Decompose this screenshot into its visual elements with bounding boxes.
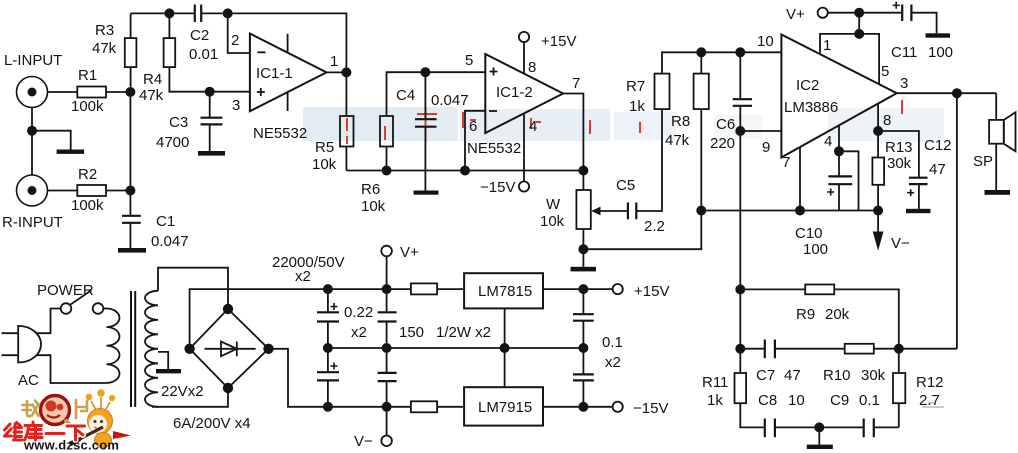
wire R2 to node <box>106 190 130 192</box>
op-amp IC1-1 <box>250 34 327 112</box>
wire R1 to node <box>106 91 130 93</box>
wire W bottom ground stem <box>582 249 584 267</box>
svg-text:8: 8 <box>528 59 536 76</box>
resistor R13 <box>872 158 884 185</box>
AC plug <box>18 326 41 363</box>
svg-text:V−: V− <box>354 433 373 450</box>
bridge diode symbol <box>205 342 256 357</box>
wire 0.22 cap column <box>386 256 388 407</box>
junction pin2 drop <box>224 9 232 17</box>
junction pin8 node <box>874 127 882 135</box>
wire secondary center tap <box>158 352 168 369</box>
wire V+ rail from bridge left <box>190 289 411 349</box>
svg-text:C2: C2 <box>190 27 209 44</box>
wire W top lead <box>582 171 584 191</box>
wire C8 to C9 <box>775 426 864 428</box>
bridge rectifier diamond <box>190 309 269 388</box>
junction R8 bottom <box>697 206 705 214</box>
wire W bottom lead <box>582 229 584 249</box>
IC1-2 minus input mark <box>489 110 497 112</box>
wire R5 leads <box>345 72 347 170</box>
wire bottom bus of IC1-2 <box>346 170 583 172</box>
wire LM7815 ground pin <box>504 308 506 387</box>
svg-text:NE5532: NE5532 <box>253 125 307 142</box>
logo text 找 <box>23 401 39 417</box>
junction -15V node <box>579 403 587 411</box>
svg-text:R1: R1 <box>78 67 97 84</box>
capacitor 22000/50V upper <box>317 312 339 321</box>
wire C4 leads <box>424 72 426 190</box>
polarity + <box>331 303 338 310</box>
svg-text:R10: R10 <box>823 367 851 384</box>
junction C6 top <box>736 48 744 56</box>
W wiper arrow <box>599 210 628 212</box>
wire mid rail <box>328 347 584 349</box>
resistor R12 <box>893 373 905 403</box>
ground W <box>571 267 597 272</box>
svg-text:L-INPUT: L-INPUT <box>4 52 62 69</box>
capacitor C7 <box>765 340 775 359</box>
svg-text:+15V: +15V <box>541 33 576 50</box>
svg-text:R7: R7 <box>626 78 645 95</box>
wire C9 to R12 <box>874 426 899 428</box>
resistor 150 lower <box>411 401 437 412</box>
svg-text:10: 10 <box>757 33 774 50</box>
svg-text:LM3886: LM3886 <box>784 99 838 116</box>
capacitor C5 <box>628 203 636 220</box>
resistor R3 <box>125 38 137 67</box>
svg-text:C8: C8 <box>758 392 777 409</box>
wire to pin 2 <box>228 13 250 53</box>
junction R1 node <box>126 88 134 96</box>
resistor R6 <box>380 116 393 147</box>
capacitor C9 <box>864 419 874 438</box>
switch POWER contact left <box>61 303 72 314</box>
connector R-INPUT jack <box>17 175 48 206</box>
wire pin4 drop <box>838 125 840 151</box>
ghost mark <box>922 403 944 407</box>
wire 22000 cap column <box>327 289 329 407</box>
wire R12 leads <box>898 349 900 428</box>
IC1-1 supply pin marks <box>287 34 289 111</box>
svg-text:1k: 1k <box>707 392 723 409</box>
wire C5 to R7 <box>636 109 662 211</box>
svg-text:5: 5 <box>465 52 473 69</box>
transformer primary winding <box>107 309 120 383</box>
svg-text:47k: 47k <box>92 40 117 57</box>
junction 0.22 cap top rail / V+ <box>383 285 391 293</box>
polarity + <box>331 363 338 370</box>
ground center tap <box>156 369 181 373</box>
terminal V+ supply <box>381 246 392 257</box>
wire R4 bottom to pin3 <box>169 67 250 92</box>
wire pin8 drop <box>877 104 879 132</box>
svg-text:IC1-1: IC1-1 <box>256 65 293 82</box>
svg-text:www.dzsc.com: www.dzsc.com <box>23 438 119 453</box>
wire IC1-2 output pin7 <box>563 94 583 171</box>
wire to LM7815 <box>437 288 464 290</box>
svg-text:4700: 4700 <box>156 134 189 151</box>
capacitor C11 <box>902 5 911 22</box>
C12 polarity + <box>907 189 914 196</box>
junction bridge left <box>185 345 194 354</box>
capacitor C10 <box>828 176 852 184</box>
resistor R10 <box>845 344 874 354</box>
wire V- from bridge right <box>269 349 411 407</box>
wire L jack to R1 <box>48 91 78 93</box>
wire C7/R10 net <box>740 348 957 350</box>
wire R jack to R2 <box>48 190 78 192</box>
svg-text:6: 6 <box>469 118 477 135</box>
svg-text:x2: x2 <box>605 354 621 371</box>
transformer secondary winding <box>145 291 158 407</box>
svg-text:6A/200V x4: 6A/200V x4 <box>173 415 251 432</box>
junction mid rail at 22000 caps <box>324 344 332 352</box>
wire inverting bus <box>701 210 878 212</box>
svg-text:R4: R4 <box>143 71 162 88</box>
svg-text:10: 10 <box>788 392 805 409</box>
svg-text:SP: SP <box>973 153 993 170</box>
svg-text:R-INPUT: R-INPUT <box>2 214 63 231</box>
junction W top <box>579 166 587 174</box>
svg-text:+15V: +15V <box>634 283 669 300</box>
wire R6 bottom <box>386 147 388 171</box>
potentiometer W body <box>576 190 590 229</box>
svg-text:20k: 20k <box>825 306 850 323</box>
junction 0.22 cap bottom rail / V- <box>383 403 391 411</box>
wire pin6 stub <box>465 111 485 171</box>
wire secondary top to bridge <box>158 268 228 309</box>
svg-text:100k: 100k <box>71 197 104 214</box>
svg-text:47k: 47k <box>665 132 690 149</box>
svg-text:10k: 10k <box>312 156 337 173</box>
svg-text:C10: C10 <box>795 225 823 242</box>
junction pin1/pin5 V+ <box>855 30 863 38</box>
svg-text:x2: x2 <box>295 268 311 285</box>
svg-text:10k: 10k <box>361 198 386 215</box>
wire R8 leads <box>700 52 702 210</box>
svg-text:0.1: 0.1 <box>859 392 880 409</box>
wire R11 bottom <box>740 403 765 427</box>
resistor R1 <box>77 87 106 98</box>
ground input <box>57 150 85 154</box>
wire plug to primary bottom <box>36 355 106 383</box>
wire pin5 <box>859 34 879 84</box>
svg-text:100: 100 <box>928 44 953 61</box>
wire plug to switch <box>36 309 60 334</box>
capacitor C2 <box>195 5 201 23</box>
svg-text:7: 7 <box>782 154 790 171</box>
C11 polarity + <box>893 2 900 9</box>
wire LM7915 output <box>543 406 613 408</box>
wire pin4 <box>523 113 525 181</box>
svg-text:1/2W x2: 1/2W x2 <box>436 324 491 341</box>
wire R13 leads <box>877 131 879 211</box>
wire C1 to ground <box>129 223 131 248</box>
junction R6 bottom <box>382 166 390 174</box>
svg-text:C9: C9 <box>830 392 849 409</box>
wire R6 top to pin5 <box>387 72 486 116</box>
junction R10 right node <box>895 345 903 353</box>
svg-text:22Vx2: 22Vx2 <box>161 383 204 400</box>
wire node column x130 <box>129 92 131 216</box>
wire C6 bottom to feedback column <box>739 106 741 373</box>
resistor R5 <box>340 116 354 147</box>
junction bridge bottom <box>224 384 233 393</box>
resistor 150 upper <box>411 283 437 294</box>
wire pin8 <box>523 42 525 74</box>
junction pin1 node <box>342 68 350 76</box>
svg-text:3: 3 <box>232 97 240 114</box>
svg-text:0.01: 0.01 <box>189 46 218 63</box>
wire V- terminal drop <box>386 407 388 436</box>
svg-text:150: 150 <box>399 324 424 341</box>
svg-text:2.2: 2.2 <box>644 218 665 235</box>
wire R4 top <box>168 13 170 38</box>
capacitor C1 <box>122 216 141 223</box>
svg-text:30k: 30k <box>861 367 886 384</box>
svg-text:R9: R9 <box>796 306 815 323</box>
wire C6 top lead <box>739 52 741 99</box>
junction 22000 cap bottom rail <box>324 403 332 411</box>
svg-text:8: 8 <box>883 112 891 129</box>
svg-text:R2: R2 <box>78 166 97 183</box>
ground SP <box>985 190 1011 195</box>
wire L jack to R jack <box>31 108 33 176</box>
svg-text:NE5532: NE5532 <box>467 140 521 157</box>
wire pin4 jog to bus <box>839 151 859 210</box>
junction output node <box>953 89 961 97</box>
junction W bottom <box>579 245 587 253</box>
regulator LM7915 <box>464 387 543 425</box>
terminal V+ right <box>818 8 828 18</box>
wire 0.1 cap column <box>582 289 584 407</box>
svg-text:LM7815: LM7815 <box>478 283 532 300</box>
svg-text:R11: R11 <box>702 374 728 391</box>
svg-text:IC1-2: IC1-2 <box>496 84 533 101</box>
wire pin1 <box>820 34 859 54</box>
junction mid rail at regulator ground pins <box>501 344 509 352</box>
svg-text:7: 7 <box>572 75 580 92</box>
capacitor C12 <box>909 178 928 184</box>
svg-text:0.047: 0.047 <box>431 92 469 109</box>
svg-text:C3: C3 <box>169 114 188 131</box>
ground C1 <box>118 248 146 253</box>
capacitor 22000/50V lower <box>317 372 339 380</box>
C10 polarity + <box>827 189 834 196</box>
svg-text:0.22: 0.22 <box>344 304 373 321</box>
wire IC1-1 output pin1 <box>327 71 347 73</box>
svg-text:1: 1 <box>330 53 338 70</box>
svg-text:V+: V+ <box>400 244 419 261</box>
svg-text:W: W <box>546 196 561 213</box>
logo mascot <box>86 394 93 401</box>
wire V+ to C11 <box>828 12 902 14</box>
junction pin9 <box>736 127 744 135</box>
capacitor C3 <box>201 118 223 125</box>
svg-text:R13: R13 <box>885 139 913 156</box>
svg-text:1k: 1k <box>629 98 645 115</box>
wire R9 net <box>740 289 899 348</box>
logo watermark bottom left <box>5 389 132 452</box>
terminal -15V output <box>613 402 623 412</box>
junction C4 top <box>421 68 429 76</box>
junction feedback ground node <box>815 423 823 431</box>
junction pin6 drop <box>461 166 469 174</box>
wire secondary bottom rail <box>152 388 228 407</box>
IC1-2 plus input mark <box>490 68 498 76</box>
wire LM7815 output <box>543 288 613 290</box>
speaker SP <box>995 93 997 120</box>
capacitor C8 <box>765 419 775 438</box>
wire top rail to C2 <box>131 12 195 14</box>
svg-text:IC2: IC2 <box>796 77 819 94</box>
AC prongs <box>2 333 19 355</box>
capacitor 0.1 upper <box>573 314 594 321</box>
wire pin9 <box>740 130 781 132</box>
terminal V- supply <box>381 436 392 447</box>
junction R4 top <box>165 9 173 17</box>
switch POWER contact right <box>93 303 104 314</box>
junction V+ node <box>855 9 863 17</box>
junction R9 left node <box>736 285 744 293</box>
svg-text:4: 4 <box>529 118 537 135</box>
ground feedback <box>807 445 833 449</box>
svg-text:100k: 100k <box>71 98 104 115</box>
svg-text:AC: AC <box>18 372 39 389</box>
junction mid rail at 0.1 caps <box>579 344 587 352</box>
resistor R11 <box>735 373 747 403</box>
svg-text:0.1: 0.1 <box>602 334 623 351</box>
junction C7 left node <box>736 345 744 353</box>
svg-text:47k: 47k <box>139 87 164 104</box>
power amp IC2 LM3886 <box>781 35 896 158</box>
wire SP to ground <box>995 144 997 190</box>
capacitor C6 <box>733 99 752 106</box>
logo magnifier circle with face <box>41 396 70 425</box>
wire to LM7915 <box>437 406 464 408</box>
resistor R2 <box>77 185 106 196</box>
capacitor 0.22 upper <box>378 312 397 321</box>
watermark red marks <box>347 100 902 144</box>
wire W bottom to R8 bottom <box>583 211 701 250</box>
resistor R7 <box>655 74 670 110</box>
svg-text:30k: 30k <box>887 155 912 172</box>
terminal -15V at pin4 <box>519 181 529 191</box>
resistor R9 <box>805 285 834 295</box>
wire output to feedback <box>956 93 958 349</box>
terminal +15V output <box>613 284 623 294</box>
junction +15V node <box>579 285 587 293</box>
switch lever <box>71 290 92 304</box>
svg-text:R6: R6 <box>361 181 380 198</box>
svg-text:5: 5 <box>881 63 889 80</box>
ground C11 <box>926 33 951 37</box>
capacitor 0.1 lower <box>573 374 594 380</box>
capacitor 0.22 lower <box>378 373 397 381</box>
resistor R4 <box>164 38 176 67</box>
wire C10 leads <box>838 151 840 210</box>
svg-text:C11: C11 <box>891 44 917 61</box>
wire to input ground <box>32 131 71 150</box>
junction pin4 node <box>835 147 843 155</box>
svg-text:47: 47 <box>929 161 946 178</box>
wire R7 top to pin10 rail <box>662 52 781 73</box>
wire switch to primary <box>103 308 106 310</box>
svg-text:0.047: 0.047 <box>151 233 189 250</box>
svg-text:C6: C6 <box>716 116 735 133</box>
svg-text:3: 3 <box>900 75 908 92</box>
svg-text:LM7915: LM7915 <box>478 399 532 416</box>
svg-text:9: 9 <box>762 139 770 156</box>
op-amp IC1-2 <box>485 54 563 133</box>
wire C12 to ground <box>918 184 920 209</box>
wire C2 to feedback <box>201 13 346 72</box>
resistor R8 <box>694 74 709 110</box>
svg-text:−15V: −15V <box>633 400 668 417</box>
svg-text:R5: R5 <box>315 139 334 156</box>
svg-text:R3: R3 <box>95 22 114 39</box>
svg-text:C12: C12 <box>924 137 952 154</box>
svg-text:R8: R8 <box>671 113 690 130</box>
junction C3 tap <box>206 88 214 96</box>
svg-text:100: 100 <box>803 241 828 258</box>
svg-text:C4: C4 <box>396 87 415 104</box>
capacitor C4 <box>415 119 437 127</box>
IC1-1 minus input mark <box>258 51 266 53</box>
wire C3 leads <box>209 92 211 151</box>
junction bridge right <box>264 345 273 354</box>
wire R3 bottom <box>130 67 132 92</box>
svg-text:−15V: −15V <box>480 179 515 196</box>
svg-text:2.7: 2.7 <box>919 392 940 409</box>
svg-text:10k: 10k <box>540 213 565 230</box>
junction mid rail at 0.22 caps <box>383 344 391 352</box>
svg-text:V+: V+ <box>786 6 805 23</box>
svg-text:4: 4 <box>824 133 832 150</box>
ground C3 <box>198 151 225 156</box>
wire V+ node riser <box>858 13 860 34</box>
watermark band <box>303 107 944 141</box>
junction 22000 cap top rail <box>324 285 332 293</box>
wire pin7 drop <box>799 147 801 211</box>
wire feedback ground stem <box>818 427 820 444</box>
IC1-1 plus input mark <box>257 88 265 96</box>
svg-text:POWER: POWER <box>37 282 94 299</box>
junction input ground tap <box>28 127 36 135</box>
wire R3 top <box>130 13 132 38</box>
transformer core <box>131 291 135 407</box>
svg-text:C5: C5 <box>616 177 635 194</box>
wire C11 to ground <box>911 13 936 34</box>
ground C4 <box>414 191 439 195</box>
junction R13 bottom <box>874 206 882 214</box>
V- arrow <box>877 211 879 233</box>
svg-text:47: 47 <box>784 367 801 384</box>
logo text 片 <box>76 400 87 418</box>
svg-text:C7: C7 <box>756 367 775 384</box>
wire IC2 output pin3 <box>897 92 997 94</box>
svg-text:2: 2 <box>231 32 239 49</box>
svg-text:220: 220 <box>710 135 735 152</box>
svg-text:x2: x2 <box>351 324 367 341</box>
logo text 维库一下 <box>5 422 85 440</box>
wire pin8 to C12 <box>878 131 919 178</box>
svg-text:V−: V− <box>891 235 910 252</box>
junction R8 top <box>697 48 705 56</box>
svg-text:R12: R12 <box>916 374 944 391</box>
regulator LM7815 <box>464 273 543 308</box>
